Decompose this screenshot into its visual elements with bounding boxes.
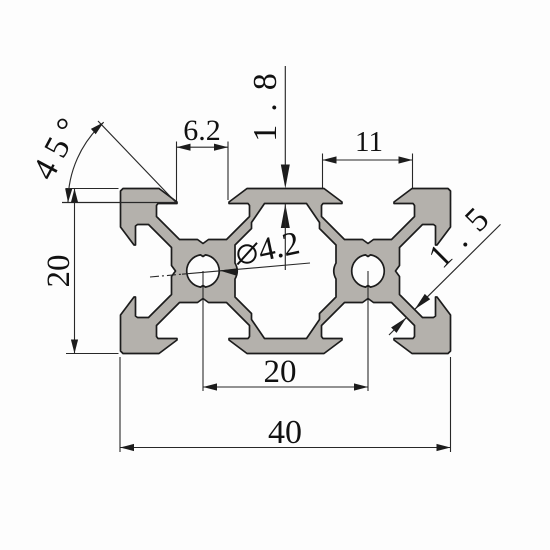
svg-text:20: 20 bbox=[41, 255, 77, 288]
20-left extension line top bbox=[66, 188, 119, 190]
1.5 leader line bbox=[415, 224, 501, 309]
6.2 arrow right bbox=[214, 144, 228, 151]
6.2 extension line right bbox=[227, 142, 229, 201]
label phi symbol bbox=[238, 245, 255, 262]
20-left extension line bottom bbox=[66, 353, 119, 355]
40 dimension line bbox=[120, 447, 451, 449]
svg-text:20: 20 bbox=[264, 354, 297, 390]
left hole vertical centerline bbox=[202, 271, 204, 391]
20-left arrow bottom bbox=[71, 340, 78, 354]
45-degree horizontal reference line bbox=[62, 202, 176, 204]
phi4.2 leader dashed tail bbox=[150, 274, 182, 277]
11 dimension line bbox=[323, 159, 413, 161]
1.8 dimension line upper with down arrow bbox=[284, 66, 286, 169]
45-degree dimension arc bbox=[68, 122, 104, 202]
6.2 arrow left bbox=[177, 144, 191, 151]
svg-text:6.2: 6.2 bbox=[183, 114, 221, 147]
svg-text:1.8: 1.8 bbox=[247, 60, 284, 142]
svg-text:11: 11 bbox=[355, 126, 383, 158]
40 extension line left bbox=[119, 357, 121, 452]
11 extension line right bbox=[412, 154, 414, 189]
40 extension line right bbox=[450, 357, 452, 452]
20-bottom arrow right bbox=[354, 383, 368, 390]
11 extension line left bbox=[322, 154, 324, 189]
right hole vertical centerline bbox=[367, 271, 369, 391]
45-degree arc arrow bottom bbox=[65, 188, 72, 202]
11 arrow left bbox=[323, 156, 337, 163]
aluminum extrusion profile cross-section body bbox=[121, 189, 451, 354]
20-bottom dimension line bbox=[203, 386, 368, 388]
20-bottom arrow left bbox=[203, 383, 217, 390]
11 arrow right bbox=[399, 156, 413, 163]
6.2 extension line left bbox=[176, 142, 178, 202]
svg-text:40: 40 bbox=[268, 414, 302, 451]
phi4.2 leader line bbox=[182, 263, 310, 274]
1.5 lower arrow and tail bbox=[391, 318, 406, 333]
20-left dimension line bbox=[74, 189, 76, 354]
40 arrow left bbox=[120, 444, 134, 451]
1.8 lower up arrow bbox=[281, 204, 290, 228]
1.5 upper arrow bbox=[415, 294, 430, 309]
20-left arrow top bbox=[71, 189, 78, 203]
40 arrow right bbox=[437, 444, 451, 451]
phi4.2 arrow at hole edge bbox=[220, 268, 238, 276]
6.2 dimension line bbox=[177, 146, 229, 148]
45-degree chamfer construction line bbox=[98, 121, 176, 203]
45-degree arc arrow top bbox=[91, 122, 104, 134]
